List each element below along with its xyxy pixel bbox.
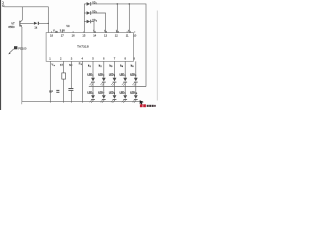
svg-text:4: 4: [130, 31, 131, 33]
LED column 3 lower: [109, 87, 117, 104]
LED column 5 upper: [130, 61, 138, 86]
wire pin2 column: [63, 61, 65, 102]
svg-text:SC: SC: [69, 64, 73, 67]
svg-text:10: 10: [133, 33, 136, 37]
LED column 1 lower: [87, 87, 95, 104]
svg-text:RP: RP: [49, 90, 53, 94]
svg-text:LED: LED: [130, 91, 135, 94]
wire collector up: [21, 7, 23, 20]
wire diode stack vertical: [83, 4, 85, 33]
svg-text:ST: ST: [60, 64, 64, 67]
LED column 1 upper: [87, 61, 95, 86]
node junction pin12: [117, 3, 119, 5]
svg-text:3.8V: 3.8V: [60, 30, 65, 33]
wire top rail to pin16: [4, 7, 48, 33]
svg-text:5: 5: [133, 66, 134, 68]
diode D1 1k: [34, 22, 39, 30]
svg-text:LED: LED: [98, 91, 103, 94]
pin numbers top: [50, 33, 137, 37]
pin numbers bottom: [49, 56, 135, 60]
microphone B PE100: [8, 46, 27, 54]
svg-text:LED: LED: [98, 74, 103, 77]
svg-text:12: 12: [115, 33, 118, 37]
svg-text:LED: LED: [87, 74, 92, 77]
wire pin3 column: [70, 61, 72, 102]
svg-text:7: 7: [103, 93, 104, 95]
svg-text:9: 9: [125, 93, 126, 95]
svg-text:1: 1: [90, 66, 91, 68]
svg-text:10: 10: [135, 93, 137, 95]
wire VD2 out: [91, 13, 105, 33]
svg-text:VC: VC: [66, 25, 70, 28]
mid rail: [89, 86, 146, 88]
svg-text:LED: LED: [109, 91, 114, 94]
diode VD3: [84, 19, 97, 23]
svg-text:1: 1: [92, 75, 93, 77]
svg-text:1: 1: [95, 31, 96, 33]
svg-text:4: 4: [122, 66, 123, 68]
LED column 4 lower: [120, 87, 128, 104]
LED column 3 upper: [109, 61, 117, 86]
svg-text:6: 6: [92, 93, 93, 95]
diode VD2: [84, 10, 97, 14]
svg-text:13: 13: [104, 33, 107, 37]
svg-text:3: 3: [118, 31, 119, 33]
resistor R2: [62, 73, 66, 79]
svg-text:LED: LED: [130, 74, 135, 77]
LED column 4 upper: [120, 61, 128, 86]
transistor VT 8550: [8, 20, 22, 29]
wire VD1 out: [91, 4, 146, 87]
LED column 2 upper: [98, 61, 106, 86]
svg-text:16: 16: [72, 33, 75, 37]
svg-text:LED: LED: [120, 91, 125, 94]
svg-text:in: in: [54, 65, 55, 67]
svg-text:4: 4: [125, 75, 126, 77]
ground rail: [22, 100, 143, 102]
IC U1 TA7318: [46, 33, 133, 62]
watermark logo: [140, 100, 156, 107]
capacitor C2: [68, 88, 73, 91]
potentiometer RP: [49, 90, 59, 94]
svg-text:2: 2: [106, 31, 107, 33]
svg-text:3: 3: [114, 75, 115, 77]
wire diode to pin16 drop: [39, 22, 48, 24]
svg-text:LED: LED: [120, 74, 125, 77]
svg-text:2: 2: [101, 66, 102, 68]
svg-text:18: 18: [50, 33, 53, 37]
top pin stubs: [52, 31, 135, 32]
wire VD3 out: [91, 22, 94, 33]
LED column 2 lower: [98, 87, 106, 104]
svg-text:17: 17: [61, 33, 64, 37]
node junction pin11: [129, 3, 131, 5]
wire emitter down: [21, 28, 23, 101]
svg-text:4: 4: [81, 64, 82, 66]
node base junction: [48, 23, 49, 24]
wire pin4 column: [81, 61, 83, 102]
svg-text:8: 8: [114, 93, 115, 95]
wire base out: [20, 22, 33, 24]
svg-text:14: 14: [93, 33, 96, 37]
diode VD1: [84, 1, 97, 5]
wire drop T4: [128, 4, 130, 33]
svg-text:LED: LED: [87, 91, 92, 94]
svg-text:8550: 8550: [8, 25, 15, 29]
wire pin1 column: [49, 61, 51, 102]
svg-text:15: 15: [82, 33, 85, 37]
svg-text:5: 5: [135, 75, 136, 77]
svg-text:LED: LED: [109, 74, 114, 77]
ground stub left: [21, 101, 23, 104]
svg-text:3: 3: [96, 21, 97, 23]
supply terminal: [2, 1, 4, 6]
svg-text:TA7318: TA7318: [77, 44, 89, 48]
wire drop T3: [116, 4, 118, 33]
LED column 5 lower: [130, 87, 138, 104]
svg-text:PE100: PE100: [18, 46, 27, 50]
svg-text:3: 3: [111, 66, 112, 68]
svg-text:2: 2: [103, 75, 104, 77]
